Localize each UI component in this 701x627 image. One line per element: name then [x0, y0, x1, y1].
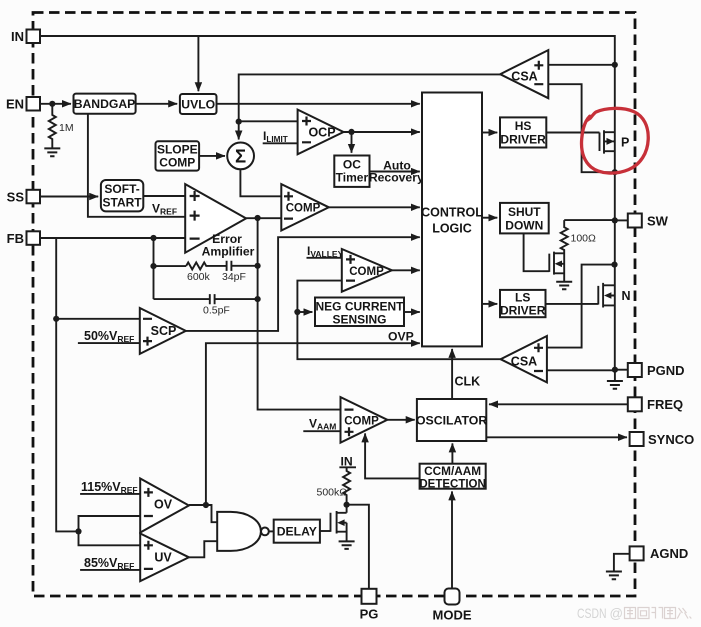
wire BANDGAP to UVLO — [136, 103, 178, 105]
svg-text:0.5pF: 0.5pF — [203, 305, 230, 317]
node CSA-out/OCP branch — [236, 119, 242, 125]
wire Error Amp output to COMP - — [246, 217, 281, 219]
comparator OCP — [298, 110, 344, 155]
svg-text:UV: UV — [154, 550, 172, 564]
ground (AGND) — [606, 572, 622, 580]
svg-text:UVLO: UVLO — [181, 97, 215, 111]
transistor P (high side PMOS) — [600, 130, 630, 153]
svg-text:SCP: SCP — [151, 324, 177, 338]
op-amp CSA (top current sense amp) — [500, 50, 548, 98]
svg-text:PGND: PGND — [647, 363, 685, 378]
svg-text:OV: OV — [154, 497, 173, 511]
wire SHUT DOWN to dummy-load FET gate — [524, 233, 550, 271]
wire IN rail (IN pin right, down right side to PGND) — [40, 36, 615, 370]
wire HS DRIVER to P-FET gate — [546, 132, 599, 134]
node OV output / OVP branch — [203, 502, 209, 508]
wire into summer top — [238, 122, 240, 140]
wire valley COMP output to CONTROL LOGIC — [392, 269, 420, 271]
pin PGND — [628, 363, 685, 378]
wire COMP net down to V_AAM comparator - input — [258, 218, 341, 410]
wire summer to COMP + input — [240, 169, 281, 196]
comparator COMP (valley current) — [342, 249, 392, 292]
wire FREQ pin to OSCILATOR — [489, 403, 628, 405]
wire into NEG CURRENT SENSING — [297, 311, 312, 313]
svg-text:Recovery: Recovery — [369, 171, 424, 185]
node 600k row — [150, 263, 156, 269]
wire CSA+ branch from IN rail — [548, 64, 615, 66]
pin IN — [11, 29, 40, 44]
node SW junction — [612, 217, 618, 223]
svg-text:FB: FB — [7, 231, 24, 246]
wire CLK oscillator to CONTROL LOGIC — [451, 349, 453, 399]
wire feedback column from FB node — [153, 238, 155, 299]
watermark CSDN — [577, 605, 691, 621]
wire lower CSA output up to valley COMP - — [297, 281, 500, 360]
wire EN to BANDGAP — [40, 103, 71, 105]
wire IN underline — [339, 466, 356, 468]
svg-text:SS: SS — [7, 189, 25, 204]
svg-text:CSA: CSA — [511, 354, 537, 368]
wire CSA output to summer and OCP+ — [239, 74, 501, 121]
wire CONTROL LOGIC to HS DRIVER — [482, 132, 497, 134]
wire SLOPE COMP to summer — [199, 155, 225, 157]
box CCM/AAM DETECTION — [419, 464, 485, 491]
pin MODE — [433, 589, 472, 623]
node PGND junction — [612, 367, 618, 373]
wire SS to SOFT-START — [40, 196, 98, 198]
wire SCP + input (50% Vref underline) — [78, 342, 140, 344]
box UVLO — [180, 94, 217, 114]
svg-text:SHUT: SHUT — [508, 205, 541, 219]
svg-text:EN: EN — [6, 97, 24, 112]
wire OC Timer to CONTROL LOGIC (Auto Recovery) — [370, 171, 420, 173]
wire NAND to DELAY — [269, 530, 274, 532]
svg-text:34pF: 34pF — [222, 271, 246, 283]
svg-text:CSA: CSA — [511, 69, 537, 83]
capacitor C 0.5pF — [210, 294, 258, 304]
node EN/1M junction — [49, 101, 55, 107]
op-amp U1 Error Amplifier — [185, 184, 246, 253]
wire OCP output to CONTROL LOGIC — [344, 131, 420, 133]
wire CCM/AAM DETECTION up to OSCILATOR — [451, 443, 453, 463]
box SLOPE COMP — [156, 141, 200, 170]
wire UVLO output to CONTROL LOGIC — [217, 103, 420, 105]
node 34pF / comp net — [255, 263, 261, 269]
comparator SCP — [140, 308, 186, 354]
svg-text:OVP: OVP — [388, 329, 414, 343]
wire V_AAM into comparator + — [303, 430, 340, 432]
svg-text:CONTROL: CONTROL — [421, 206, 483, 220]
svg-text:DRIVER: DRIVER — [500, 133, 546, 147]
pin SYNCO — [630, 432, 695, 447]
wire PG node to PG pin — [347, 505, 369, 589]
svg-text:AGND: AGND — [650, 546, 688, 561]
wire LS DRIVER to N-FET gate — [546, 303, 599, 305]
svg-text:Amplifier: Amplifier — [202, 244, 255, 258]
wire AGND to ground — [614, 554, 630, 572]
wire 100 ohm top to SW rail — [564, 219, 614, 221]
pin SS — [7, 189, 40, 204]
svg-text:DELAY: DELAY — [277, 525, 317, 539]
node SW rail / lower CSA + branch — [611, 262, 617, 268]
wire OVP from OV output to CONTROL LOGIC — [206, 343, 420, 505]
wire OV - / UV + common — [79, 516, 141, 545]
comparator OV — [140, 479, 189, 533]
svg-text:SYNCO: SYNCO — [648, 432, 694, 447]
box NEG CURRENT SENSING — [315, 298, 404, 327]
transistor N (low side NMOS) — [598, 283, 630, 308]
box CONTROL LOGIC — [421, 93, 483, 347]
svg-text:COMP: COMP — [349, 266, 384, 278]
wire V_REF (BANDGAP bottom to Error Amp + ) — [88, 114, 185, 217]
svg-text:SW: SW — [647, 213, 669, 228]
svg-text:CSDN: CSDN — [577, 605, 607, 621]
wire OCP out down into OC Timer — [351, 132, 353, 153]
wire CCM/AAM output to AAM COMP bottom — [365, 433, 420, 478]
summer sigma node — [227, 143, 254, 170]
svg-text:1M: 1M — [59, 122, 74, 134]
svg-text:Σ: Σ — [235, 146, 246, 167]
resistor 1M — [49, 104, 56, 148]
resistor 500k — [343, 467, 350, 504]
wire NEG CURRENT SENSING to CONTROL LOGIC — [404, 311, 420, 313]
wire SOFT-START to Error Amp + — [143, 195, 185, 197]
svg-text:Timer: Timer — [336, 171, 369, 185]
wire FB to Error Amp - — [40, 237, 185, 239]
ground (dummy load source) — [556, 282, 572, 290]
box OSCILATOR — [416, 399, 487, 441]
wire SW rail to lower CSA + input — [547, 265, 615, 348]
svg-text:BANDGAP: BANDGAP — [74, 97, 136, 111]
wire 115%VREF into OV + — [80, 493, 140, 495]
wire 0.5pF row — [154, 298, 210, 300]
pin EN — [6, 97, 40, 112]
svg-text:LOGIC: LOGIC — [432, 222, 472, 236]
node Error Amp output — [255, 215, 261, 221]
box OC Timer — [334, 156, 369, 187]
node IN/CSA+ junction — [612, 62, 618, 68]
wire SCP output to CONTROL LOGIC — [186, 237, 420, 331]
node SCP - branch — [53, 316, 59, 322]
wire SCP - input — [56, 318, 140, 320]
box SHUT DOWN — [500, 203, 549, 234]
wire branch to OCP + input — [239, 120, 298, 122]
node NEG sensing branch — [294, 309, 300, 315]
svg-text:HS: HS — [515, 119, 532, 133]
resistor 100 ohm — [561, 220, 568, 281]
ground (power ground below PGND node) — [614, 370, 616, 381]
wire CSA - input to SW node — [548, 84, 615, 172]
box DELAY — [274, 520, 320, 543]
ground (below 1M) — [44, 148, 60, 156]
svg-text:SENSING: SENSING — [332, 312, 386, 326]
svg-text:CCM/AAM: CCM/AAM — [424, 464, 481, 478]
wire UV output into NAND input B — [189, 541, 217, 557]
svg-text:PG: PG — [360, 607, 379, 622]
svg-text:OSCILATOR: OSCILATOR — [416, 414, 487, 428]
capacitor 34pF — [227, 261, 258, 271]
svg-text:IN: IN — [11, 29, 24, 44]
wire AAM COMP output to OSCILATOR — [387, 419, 414, 421]
wire 85%VREF into UV - — [80, 569, 140, 571]
box BANDGAP — [74, 94, 136, 114]
wire I_LIMIT into OCP - input — [263, 142, 298, 144]
wire MODE pin up to CCM/AAM DETECTION — [451, 491, 453, 588]
svg-text:600k: 600k — [187, 271, 211, 283]
wire OV output into NAND input A — [189, 505, 217, 522]
pin FB — [7, 231, 40, 246]
svg-text:COMP: COMP — [344, 415, 379, 427]
box LS DRIVER — [500, 290, 546, 318]
red annotation circle around P-FET — [582, 108, 649, 173]
box SOFT-START — [101, 180, 143, 211]
node OCP out / OC timer branch — [348, 129, 354, 135]
resistor 600k — [154, 265, 187, 267]
svg-text:DRIVER: DRIVER — [500, 303, 546, 317]
pin AGND — [630, 546, 689, 561]
pin PG — [360, 589, 379, 622]
wire DELAY to PG FET gate — [320, 530, 331, 532]
svg-text:OCP: OCP — [308, 126, 335, 140]
wire lower CSA - to PGND node — [547, 369, 615, 371]
node P-FET source / SW rail junction — [612, 169, 618, 175]
wire FB sense down to SCP and OV/UV — [56, 238, 78, 531]
op-amp CSA (lower current sense amp) — [501, 336, 547, 382]
IC boundary dashed border — [33, 13, 635, 597]
ground (PG FET source) — [339, 541, 355, 549]
gate NAND — [217, 512, 269, 551]
transistor Q PG (open drain NMOS) — [331, 505, 347, 542]
wire CONTROL LOGIC to SHUT DOWN — [482, 217, 497, 219]
wire CONTROL LOGIC to LS DRIVER — [482, 303, 497, 305]
wire PGND node to PGND pin — [615, 369, 628, 371]
node PG / 500k / drain junction — [344, 502, 350, 508]
box HS DRIVER — [500, 117, 546, 147]
svg-text:COMP: COMP — [286, 203, 321, 215]
svg-text:SOFT-: SOFT- — [104, 182, 139, 196]
wire I_VALLEY into valley COMP + — [307, 257, 342, 259]
comparator COMP (AAM) — [341, 397, 388, 443]
svg-text:CLK: CLK — [455, 375, 481, 389]
wire SW node to SW pin — [614, 219, 628, 221]
node FB sense / OV-UV junction — [75, 528, 81, 534]
pin SW — [628, 213, 669, 228]
wire COMP output to CONTROL LOGIC — [329, 206, 420, 208]
comparator UV — [140, 534, 189, 582]
node FB / feedback divider junction — [150, 235, 156, 241]
node 0.5pF / comp net — [255, 296, 261, 302]
svg-text:@: @ — [610, 605, 624, 621]
wire IN to UVLO top — [197, 36, 199, 91]
wire OSCILATOR to SYNCO pin — [486, 436, 627, 438]
svg-text:OC: OC — [343, 157, 361, 171]
svg-text:LS: LS — [515, 290, 530, 304]
transistor Q (100 ohm dummy load NMOS) — [549, 252, 564, 275]
svg-text:NEG CURRENT: NEG CURRENT — [315, 299, 404, 313]
svg-text:FREQ: FREQ — [647, 397, 683, 412]
svg-text:MODE: MODE — [433, 608, 472, 623]
comparator COMP (peak current) — [281, 184, 329, 230]
svg-text:P: P — [621, 135, 629, 149]
pin FREQ — [628, 397, 683, 412]
svg-text:DETECTION: DETECTION — [419, 478, 485, 490]
svg-text:START: START — [103, 196, 143, 210]
svg-text:COMP: COMP — [159, 156, 195, 170]
svg-text:N: N — [622, 289, 631, 303]
svg-text:DOWN: DOWN — [505, 218, 543, 232]
svg-text:100Ω: 100Ω — [571, 233, 597, 245]
svg-text:SLOPE: SLOPE — [157, 143, 198, 157]
svg-text:500kΩ: 500kΩ — [317, 487, 348, 499]
